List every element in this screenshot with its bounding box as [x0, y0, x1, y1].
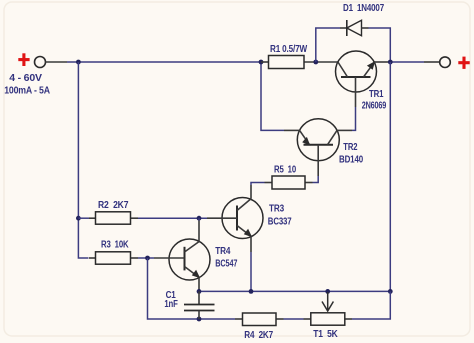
node R1 left tap [259, 60, 264, 65]
node C1 bottom tap [197, 317, 202, 322]
wire R5 to TR2 base [313, 176, 319, 183]
transistor TR4 base pin [154, 257, 185, 259]
svg-text:1nF: 1nF [164, 299, 177, 310]
transistor TR3 base pin [207, 217, 237, 219]
node TR4 collector tap [197, 216, 202, 221]
wire R2 left [78, 217, 89, 219]
transistor TR2 emitter lead with arrow (PNP) [284, 130, 310, 145]
wire bottom rail upper [199, 290, 390, 292]
svg-text:100mA - 5A: 100mA - 5A [4, 86, 50, 97]
resistor R1 pins [261, 61, 338, 63]
transistor TR1 emitter lead with arrow [364, 61, 390, 77]
wire R2 to TR3 base [138, 217, 207, 219]
node R3 branch [145, 256, 150, 261]
wire TR3 collector up to R5 [251, 183, 265, 186]
transistor TR1 circle [336, 51, 377, 92]
svg-text:TR4: TR4 [215, 246, 230, 257]
wire top main left [67, 61, 261, 63]
capacitor C1 bottom lead [198, 311, 200, 320]
transistor TR2 base pin [317, 145, 319, 176]
transistor TR3 emitter lead with arrow [237, 226, 252, 253]
wire R3 to TR4 base [138, 257, 154, 259]
wire TR3 emitter down [250, 252, 252, 291]
diode D1 right pin [362, 27, 369, 29]
svg-text:TR3: TR3 [269, 204, 284, 215]
node left rail R2 tap [76, 216, 81, 221]
diode D1 left pin [340, 27, 347, 29]
node diode left tap [313, 60, 318, 65]
diode D1 cathode bar [346, 20, 348, 36]
transistor TR4 emitter lead with arrow [185, 267, 201, 292]
wire TR4 collector up [198, 218, 200, 220]
svg-text:R3 10K: R3 10K [101, 239, 129, 250]
output terminal pin [424, 61, 440, 63]
wire TR2 collector to TR1 base [352, 107, 356, 130]
transistor TR4 base bar [184, 247, 186, 271]
wire TR2 emitter left [261, 62, 284, 130]
capacitor C1 top lead [198, 291, 200, 304]
svg-text:BC547: BC547 [215, 259, 237, 270]
wire branch down to bottom rail [148, 258, 236, 319]
wire diode loop right [369, 28, 391, 62]
resistor R3 pins [89, 257, 138, 259]
plus terminal left (red) [18, 53, 29, 66]
svg-text:R1 0.5/7W: R1 0.5/7W [270, 44, 307, 55]
plus terminal right (red) [458, 57, 469, 69]
potentiometer T1 pins [304, 318, 353, 320]
svg-text:BC337: BC337 [268, 217, 292, 228]
transistor TR2 collector lead [328, 130, 353, 144]
node rail TR4 emitter [197, 289, 202, 294]
transistor TR1 collector lead [338, 62, 348, 77]
resistor R5 [272, 176, 305, 189]
transistor TR3 circle [222, 198, 263, 239]
wire T1 right to rail [352, 291, 390, 319]
transistor TR3 base bar [236, 206, 238, 231]
resistor R3 [96, 252, 131, 264]
transistor TR1 base bar [341, 76, 371, 78]
svg-text:BD140: BD140 [339, 155, 363, 166]
svg-text:TR1: TR1 [369, 89, 384, 100]
node rail right corner [388, 289, 393, 294]
transistor TR2 circle [297, 119, 339, 161]
resistor R2 [96, 212, 131, 224]
svg-text:4 - 60V: 4 - 60V [9, 73, 42, 84]
svg-text:R5 10: R5 10 [274, 165, 296, 176]
input terminal pin [45, 61, 67, 63]
resistor R4 pins [235, 318, 284, 320]
svg-text:D1 1N4007: D1 1N4007 [343, 3, 384, 14]
resistor R2 pins [89, 217, 138, 219]
node top-left rail tap [76, 60, 81, 65]
svg-text:T1 5K: T1 5K [313, 329, 338, 340]
wire right rail vertical [389, 62, 391, 291]
transistor TR4 collector lead [185, 221, 200, 253]
wire TR1 emitter to output [389, 61, 424, 63]
input terminal circle [35, 57, 46, 68]
node rail TR3 emitter [249, 289, 254, 294]
node output vertical tap [388, 60, 393, 65]
output terminal circle [440, 57, 451, 68]
diode D1 triangle [347, 20, 362, 35]
transistor TR2 base bar [304, 144, 334, 146]
resistor R1 [269, 56, 305, 69]
transistor TR4 circle [169, 239, 210, 280]
svg-text:2N6069: 2N6069 [362, 100, 387, 111]
resistor R4 [243, 313, 277, 326]
potentiometer T1 wiper arrow [322, 292, 333, 311]
capacitor C1 plates [184, 305, 215, 311]
wire R4 to T1 [284, 318, 304, 320]
wire diode loop left [316, 28, 340, 62]
resistor R5 pins [265, 182, 313, 184]
node rail T1 wiper [325, 289, 330, 294]
transistor TR1 base pin [355, 77, 357, 107]
svg-text:R2 2K7: R2 2K7 [98, 200, 129, 211]
potentiometer T1 body [311, 313, 345, 325]
transistor TR3 collector lead [237, 185, 251, 211]
svg-text:TR2: TR2 [343, 142, 357, 153]
svg-text:R4 2K7: R4 2K7 [244, 330, 273, 341]
wire left rail vertical [78, 62, 88, 258]
